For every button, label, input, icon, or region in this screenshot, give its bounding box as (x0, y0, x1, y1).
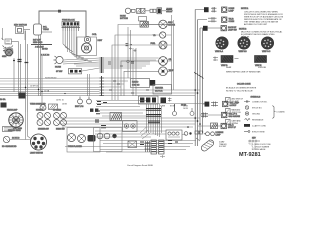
svg-text:LO BEAM: LO BEAM (53, 109, 61, 112)
wire harness left band (0, 88, 100, 96)
battery cable B+ (31, 44, 52, 46)
radio box (131, 79, 156, 88)
svg-text:LAMP: LAMP (216, 134, 222, 137)
wire to dimmer (145, 10, 150, 12)
junction dots left band (25, 87, 66, 94)
cab lamp 2 (78, 135, 86, 143)
tail row2 marks (201, 113, 208, 118)
wire left vertical 5 (26, 44, 28, 112)
nested corner wire 3 (112, 45, 159, 100)
instrument box lamps (97, 133, 117, 139)
wires to light switch (26, 112, 31, 140)
svg-text:14 RD 16: 14 RD 16 (56, 100, 64, 102)
wire to tail row2 (200, 114, 221, 116)
wire from ignition switch (24, 29, 31, 31)
small bits right of dark square (168, 98, 172, 102)
wiper switch box circles (166, 130, 182, 140)
right bus wire 2 (197, 20, 199, 147)
svg-text:HEATER: HEATER (155, 87, 164, 90)
band horizontals upper (96, 101, 205, 117)
svg-text:COLOR CODE: COLOR CODE (237, 84, 251, 86)
svg-text:TURN: TURN (160, 106, 166, 108)
svg-text:RELAY: RELAY (167, 10, 174, 13)
svg-text:ST SW: ST SW (56, 71, 62, 73)
svg-text:WHEN TAPPING LINE OF WIRING HA: WHEN TAPPING LINE OF WIRING HAR (226, 71, 261, 74)
wire right of switch (162, 10, 166, 12)
harness vertical cluster (147, 104, 162, 137)
bottom connector bits (140, 142, 149, 145)
svg-text:VIEW C-C: VIEW C-C (262, 51, 271, 53)
hatched connector pair (137, 8, 146, 13)
svg-text:KEY SWITCH: KEY SWITCH (14, 25, 27, 27)
svg-text:10 RD: 10 RD (42, 49, 48, 51)
svg-text:HORN RELAY: HORN RELAY (45, 77, 57, 80)
relay dark box left (19, 93, 26, 99)
caption text right (226, 66, 267, 74)
nested corner wire 1 (118, 25, 159, 101)
dimmer switch pair (150, 9, 156, 12)
symbol row 1 (244, 100, 268, 103)
symbol row 3 (245, 112, 260, 116)
instrument bulb 2 (87, 97, 92, 104)
flasher label box (139, 17, 147, 21)
headlamp circle (9, 113, 23, 127)
wire to lamp row3 (200, 27, 203, 29)
gauge stubs to cluster edge (166, 24, 172, 71)
svg-text:TURN SIGNAL IND: TURN SIGNAL IND (30, 103, 46, 106)
svg-text:BUTTON: BUTTON (120, 18, 128, 20)
rotated box label (219, 141, 227, 149)
temp gauge (160, 32, 166, 38)
symbol row 2 (245, 106, 262, 110)
svg-text:LOCATED: LOCATED (277, 111, 286, 114)
hatched box beside junction (49, 104, 58, 110)
svg-text:RD RED YL YELLOW BL B: RD RED YL YELLOW BL BLUE (226, 91, 253, 93)
starter motor M1 (6, 49, 13, 56)
row1 lamp (222, 7, 227, 12)
svg-text:RESISTANCE: RESISTANCE (252, 119, 264, 122)
junction block with eyelets (123, 121, 138, 132)
main bundle mid band (60, 118, 200, 127)
cluster diagonals (140, 127, 150, 139)
hanging bulb right (190, 108, 194, 116)
dimmer cluster A (37, 113, 51, 126)
band left connector dashes (96, 102, 107, 114)
wire left vertical 6 (38, 35, 40, 96)
right bus wire 1 (194, 10, 196, 147)
wire solenoid to right (42, 31, 53, 33)
svg-text:NEG GRD: NEG GRD (33, 42, 43, 44)
heater box (153, 85, 172, 95)
svg-text:NO CHARGE IND: NO CHARGE IND (2, 145, 17, 148)
small boxes left of license (195, 131, 203, 134)
row3 wire (208, 27, 221, 29)
ammeter gauge A1 (159, 20, 167, 28)
horn button circle (125, 8, 130, 13)
left legend icon 1 (226, 98, 231, 103)
headlamp switch dark box (157, 8, 162, 14)
wire ignition drop (24, 31, 26, 41)
nested corner wire 4 (121, 61, 159, 96)
wire left vertical 2 (18, 42, 20, 97)
left edge block (1, 103, 7, 108)
ignition feed circle (3, 136, 9, 142)
svg-text:GEN: GEN (2, 56, 7, 58)
svg-text:LAMP SW: LAMP SW (228, 28, 237, 31)
junction circle with X (40, 105, 46, 111)
tail row2 lamp (222, 112, 227, 117)
symbol row 4 (245, 119, 265, 122)
connector plug blob 2 (238, 37, 250, 49)
svg-text:1 BLK 16: 1 BLK 16 (41, 55, 50, 57)
fuse block F1 (62, 22, 79, 27)
svg-text:HEADLAMP: HEADLAMP (7, 109, 18, 112)
wires horn bundle (63, 58, 100, 71)
legend bracket (273, 106, 276, 119)
bottom tick bits right (168, 141, 178, 144)
left legend icon 3 (226, 120, 231, 125)
svg-text:REAR: REAR (226, 66, 232, 69)
svg-text:10 WH 16: 10 WH 16 (30, 86, 38, 88)
light switch rear view (31, 134, 47, 150)
small hatch strip left of combs (145, 141, 151, 152)
left legend icon 2 (226, 109, 231, 114)
svg-text:GAS GAUGE: GAS GAUGE (229, 115, 241, 118)
color code table (226, 87, 257, 93)
wire left vertical 7 (39, 35, 41, 96)
tail row3 hatched blob (211, 123, 218, 129)
starter cluster blob (4, 47, 14, 57)
svg-text:LAMP: LAMP (229, 9, 235, 12)
note1 text (244, 12, 284, 27)
left legend text 3 (232, 120, 242, 125)
voltage regulator box (3, 127, 13, 132)
svg-text:NOTE 2: NOTE 2 (239, 29, 247, 31)
svg-text:16 RD: 16 RD (183, 108, 189, 110)
wiper lamp bits (184, 132, 192, 136)
svg-text:SPLICE NO.: SPLICE NO. (252, 108, 263, 110)
connector plug blob 3 (261, 37, 273, 49)
symbol row 5 (244, 124, 266, 128)
generator G1 (3, 47, 6, 51)
distributor circle (82, 43, 92, 53)
svg-text:HORN: HORN (55, 67, 61, 69)
svg-text:BEAM IND: BEAM IND (56, 128, 65, 131)
wire: main feed top run (39, 11, 86, 37)
wire diag to rotated box (196, 138, 200, 141)
labels under fuse panel (160, 106, 189, 111)
svg-text:SOCKET: SOCKET (219, 146, 227, 148)
center verticals (128, 27, 136, 96)
splice dashes mid band (108, 62, 149, 93)
svg-text:14 GA: 14 GA (0, 98, 6, 101)
instrument bulb 1 (78, 97, 83, 104)
mini diagram callouts (252, 144, 272, 151)
cluster tick row 1 (146, 109, 161, 111)
wire left vertical 3 (20, 44, 22, 96)
row2 inline connector (208, 17, 217, 22)
svg-text:MOTOR: MOTOR (155, 91, 163, 93)
cab relay dark box (88, 135, 96, 142)
left edge wire stub (2, 28, 4, 40)
note2 text (241, 31, 283, 39)
wire gauge mini diagram (248, 140, 260, 142)
bus junction dots (187, 89, 201, 128)
tail row1 lamp (223, 101, 228, 106)
instrument box outline (94, 128, 123, 152)
ignition coil circle (84, 36, 90, 42)
svg-text:MT-9281: MT-9281 (239, 152, 261, 158)
svg-text:16 BK: 16 BK (62, 104, 68, 106)
hatched block 1 (221, 56, 233, 63)
svg-text:CONN: CONN (229, 21, 235, 23)
inline dashes top row (166, 10, 172, 12)
stray mark above caption (160, 155, 165, 158)
row1 connector block (204, 7, 209, 12)
hatched block1 ticks (213, 57, 239, 62)
svg-text:14 BK 16: 14 BK 16 (12, 138, 19, 140)
svg-text:ALTERED IN YOUR UNIT: ALTERED IN YOUR UNIT (244, 23, 268, 26)
plus tick marks (129, 47, 137, 52)
svg-text:GROUND: GROUND (252, 114, 261, 116)
left legend text 2 (232, 109, 242, 114)
svg-text:HI BEAM: HI BEAM (36, 109, 44, 112)
horn button link (131, 9, 135, 12)
nested corner wire 2 (115, 35, 160, 100)
license lamp circles (204, 132, 214, 136)
ignition switch S1 (16, 27, 24, 34)
row3 connector block (203, 26, 208, 31)
svg-text:& STOP: & STOP (230, 105, 238, 107)
svg-text:STOP: STOP (170, 106, 176, 108)
row1 inline connector (211, 7, 217, 12)
row3 lamp (221, 25, 226, 30)
svg-text:INST LPS: INST LPS (75, 106, 84, 108)
wire to lamp row2 (198, 19, 207, 21)
svg-text:EYELET TERM: EYELET TERM (252, 132, 265, 134)
generator leads (3, 46, 14, 48)
mid band connector tags (95, 120, 106, 128)
svg-text:NOTE 1: NOTE 1 (241, 8, 249, 10)
svg-text:STOP LP: STOP LP (228, 127, 237, 129)
nested corner wire 5 (124, 71, 159, 96)
starter solenoid K1 (34, 24, 42, 35)
cluster tick row 3 (148, 121, 160, 123)
terminal box T1 (5, 39, 12, 44)
svg-text:VIEW A-A: VIEW A-A (215, 50, 224, 53)
svg-text:VIEW BB: VIEW BB (258, 67, 267, 69)
hatched block 2 (255, 56, 267, 63)
fuel gauge (159, 41, 167, 49)
center horizontals upper (104, 58, 159, 68)
wire left vertical 4 (25, 31, 27, 113)
tail row3 lamp (221, 123, 226, 128)
bulkhead connector comb lower (100, 76, 105, 96)
mid band dark blob (110, 113, 122, 121)
svg-text:CONNECTOR NO.: CONNECTOR NO. (252, 102, 268, 104)
symbol row 6 (244, 131, 265, 134)
callout leader lines (249, 143, 255, 150)
wire left vertical 8 (41, 56, 43, 104)
instrument cluster edge line 2 (173, 20, 175, 90)
bottom comb connector 2 (159, 140, 165, 154)
instrument cluster edge line 1 (171, 15, 173, 90)
svg-text:DIMMER SW: DIMMER SW (38, 129, 49, 131)
wire vertical pair below switch (88, 74, 90, 96)
small box pair mid (90, 109, 98, 112)
svg-text:LIGHT SWITCH: LIGHT SWITCH (30, 153, 44, 155)
row2 lamp (222, 17, 227, 22)
wire to tail row1 (202, 103, 205, 105)
svg-text:Circuit Diagram Scout 800B: Circuit Diagram Scout 800B (127, 164, 153, 167)
horn H1 (54, 56, 64, 64)
fuse panel lower box (139, 96, 159, 104)
tail row1 connector (205, 102, 210, 107)
band horizontals lower (95, 131, 186, 137)
splice marks left verticals (13, 60, 28, 63)
tail row1 inline (211, 102, 218, 107)
left legend text 1 (232, 98, 244, 103)
wire to tail row3 (198, 125, 221, 127)
wires from comb down (63, 31, 92, 62)
bulkhead connector comb upper (100, 57, 105, 73)
right bus wire 4 (201, 28, 203, 133)
svg-text:2-CAVITY CONN: 2-CAVITY CONN (252, 125, 266, 128)
wire left vertical 1 (13, 58, 15, 92)
hanging component bar (173, 104, 177, 116)
bottom bundle (65, 141, 196, 153)
bottom small box with X (128, 141, 137, 148)
svg-text:VIEW B-B: VIEW B-B (239, 51, 248, 53)
flasher dark blob (140, 22, 148, 28)
connector comb CC1 (62, 26, 81, 31)
svg-text:BK BLACK GR GREEN WH W: BK BLACK GR GREEN WH WHITE (226, 87, 257, 90)
inline connector on top wire (58, 10, 61, 12)
stop light switch box (69, 69, 82, 74)
svg-text:3 - WIRE GAUGE: 3 - WIRE GAUGE (252, 148, 266, 151)
bus arrow ticks (194, 72, 203, 79)
dark square right of fuse panel (161, 98, 167, 104)
svg-text:DIST: DIST (98, 40, 103, 42)
oil gauge (159, 57, 168, 66)
svg-text:SYMBOLS: SYMBOLS (251, 97, 261, 99)
mid tick circle bits (127, 60, 134, 63)
connector plug blob 1 (216, 37, 228, 49)
cluster tick row 2 (146, 115, 161, 117)
wire harness left band upper (0, 78, 100, 84)
wire from circle (10, 139, 29, 141)
right bus wire 3 (199, 28, 201, 140)
bottom comb connector 1 (151, 140, 157, 154)
dimmer cluster B (54, 113, 67, 126)
wire flasher to gauges (148, 24, 158, 26)
speedo gauge (159, 67, 168, 76)
cab lamp 1 (68, 134, 76, 142)
wire to lamp row1 (195, 9, 204, 11)
center horizontals lower (104, 78, 200, 96)
misc labels mid left (30, 77, 68, 106)
rotated trailer box (200, 139, 215, 153)
svg-text:SEALED BEAM: SEALED BEAM (8, 129, 21, 132)
svg-text:TERM: TERM (43, 29, 49, 31)
gauge feed ticks (126, 44, 133, 46)
distributor housing box (77, 37, 97, 56)
cab box outline (67, 128, 100, 153)
svg-text:12 GA: 12 GA (44, 90, 50, 93)
